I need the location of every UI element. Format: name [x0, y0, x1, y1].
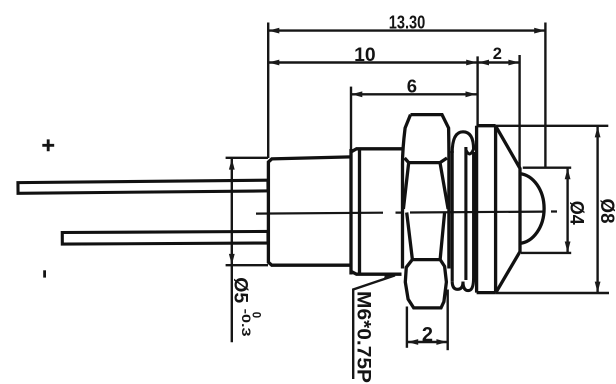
- svg-text:2: 2: [493, 45, 502, 63]
- svg-text:Ø8: Ø8: [596, 199, 616, 224]
- svg-text:Ø5: Ø5: [230, 277, 251, 303]
- svg-text:M6*0.75P: M6*0.75P: [353, 291, 374, 383]
- svg-text:-0.3: -0.3: [239, 309, 251, 337]
- svg-text:13.30: 13.30: [389, 13, 426, 33]
- svg-text:6: 6: [407, 75, 417, 96]
- svg-text:10: 10: [354, 45, 376, 66]
- svg-text:2: 2: [422, 324, 433, 346]
- svg-text:Ø4: Ø4: [566, 201, 587, 225]
